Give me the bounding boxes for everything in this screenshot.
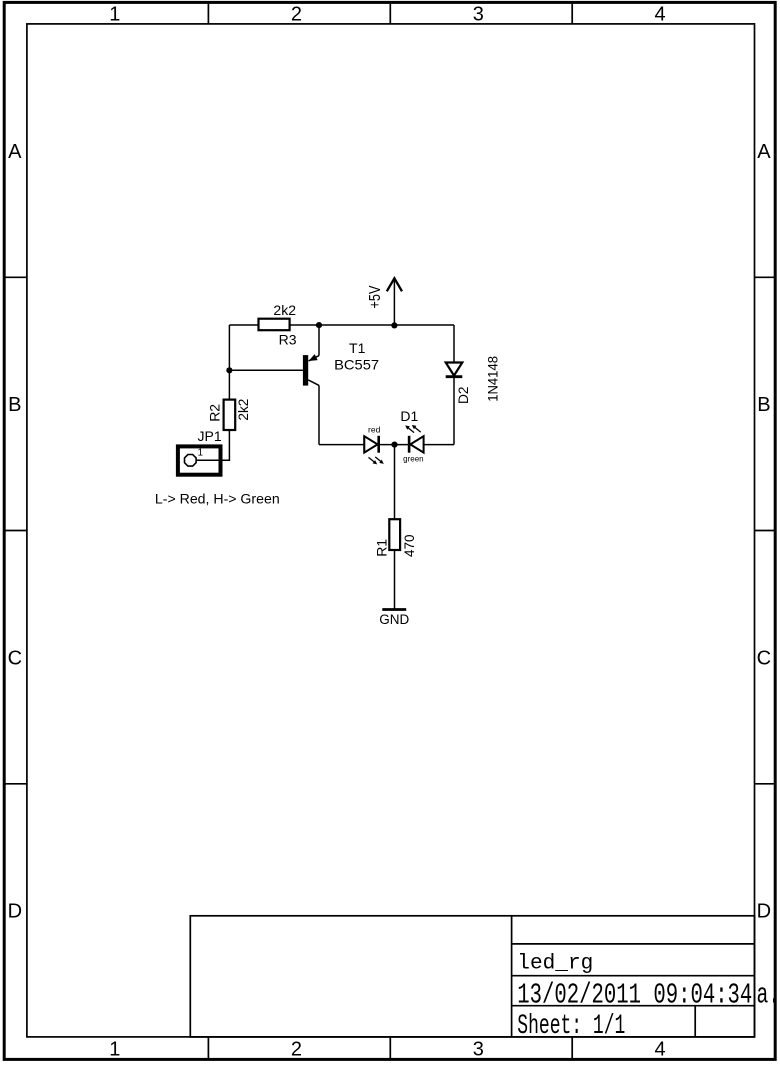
svg-text:4: 4: [654, 4, 665, 26]
svg-text:GND: GND: [379, 612, 409, 627]
LED D1 green emission arrow 1: [405, 425, 414, 432]
power +5V symbol: [387, 278, 402, 291]
LED D1 red triangle: [364, 436, 377, 452]
svg-text:C: C: [8, 648, 22, 670]
svg-text:green: green: [403, 455, 423, 464]
connector JP1 box: [178, 446, 221, 474]
svg-text:D2: D2: [455, 386, 471, 404]
wire to red LED anode: [319, 444, 364, 446]
connector JP1 pin pad: [185, 455, 197, 467]
svg-text:JP1: JP1: [198, 428, 222, 444]
wire top rail left segment: [229, 324, 258, 326]
svg-text:R3: R3: [279, 332, 297, 348]
wire R1 to ground: [394, 550, 396, 609]
wire bottom right to green LED: [424, 444, 454, 446]
svg-text:A: A: [757, 141, 771, 163]
svg-text:B: B: [757, 394, 770, 416]
LED D1 red emission arrow 1: [369, 457, 378, 464]
svg-text:T1: T1: [349, 340, 366, 356]
svg-text:1: 1: [109, 4, 120, 26]
svg-text:Sheet: 1/1: Sheet: 1/1: [517, 1011, 625, 1042]
svg-text:B: B: [8, 394, 21, 416]
LED D1 red anode edge: [363, 436, 365, 452]
diode D2 cathode bar: [446, 375, 463, 378]
svg-text:+5V: +5V: [367, 285, 384, 309]
svg-text:2k2: 2k2: [235, 398, 251, 420]
svg-text:470: 470: [401, 534, 417, 557]
svg-text:red: red: [368, 425, 381, 435]
LED D1 red cathode bar: [377, 436, 380, 453]
junction node +5V rail: [391, 322, 397, 328]
svg-text:A: A: [8, 141, 22, 163]
svg-text:4: 4: [654, 1038, 665, 1060]
svg-text:D: D: [8, 901, 22, 923]
svg-text:L-> Red, H-> Green: L-> Red, H-> Green: [155, 492, 280, 507]
resistor R2 body: [224, 400, 236, 430]
svg-text:1N4148: 1N4148: [484, 356, 500, 402]
svg-text:a.r: a.r: [757, 980, 780, 1011]
junction node LED midpoint: [391, 442, 397, 448]
connector JP1 pin wire: [197, 459, 230, 461]
svg-text:D1: D1: [400, 408, 418, 424]
svg-text:1: 1: [198, 448, 204, 459]
svg-text:2k2: 2k2: [273, 302, 296, 318]
transistor T1 base bar: [303, 355, 308, 386]
LED D1 green triangle: [410, 436, 423, 452]
wire collector diagonal: [308, 380, 319, 386]
wire between LEDs: [379, 444, 409, 446]
svg-text:3: 3: [473, 1038, 484, 1060]
svg-text:R2: R2: [207, 404, 223, 422]
svg-text:R1: R1: [373, 539, 389, 557]
svg-text:2: 2: [291, 4, 302, 26]
svg-text:C: C: [757, 648, 771, 670]
transistor T1 emitter arrow: [309, 354, 318, 361]
svg-text:led_rg: led_rg: [517, 952, 593, 976]
svg-text:2: 2: [291, 1038, 302, 1060]
svg-text:13/02/2011 09:04:34: 13/02/2011 09:04:34: [517, 980, 752, 1011]
wire +5V stem: [393, 278, 395, 325]
svg-text:3: 3: [473, 4, 484, 26]
junction node R3 output / emitter: [316, 322, 322, 328]
diode D2 triangle: [446, 363, 463, 376]
LED D1 green emission arrow 2: [412, 425, 421, 432]
wire base horizontal: [229, 369, 303, 371]
wire emitter diagonal: [309, 356, 319, 361]
wire R2 bottom to JP1 pin: [197, 430, 230, 460]
svg-text:BC557: BC557: [334, 357, 379, 373]
wire LED junction down to R1: [394, 445, 396, 520]
wire right vertical through D2: [453, 325, 455, 445]
junction node base / R2 top: [226, 367, 232, 373]
wire left vertical branch: [228, 325, 230, 400]
svg-text:1: 1: [109, 1038, 120, 1060]
wire emitter vertical: [318, 325, 320, 356]
LED D1 green cathode bar: [408, 436, 411, 453]
ground symbol: [382, 608, 406, 611]
LED D1 red emission arrow 2: [375, 457, 384, 464]
svg-text:D: D: [757, 901, 771, 923]
resistor R3 body: [259, 319, 290, 331]
wire top rail right segment: [290, 324, 454, 326]
wire collector vertical: [318, 385, 320, 444]
resistor R1 body: [389, 519, 400, 550]
